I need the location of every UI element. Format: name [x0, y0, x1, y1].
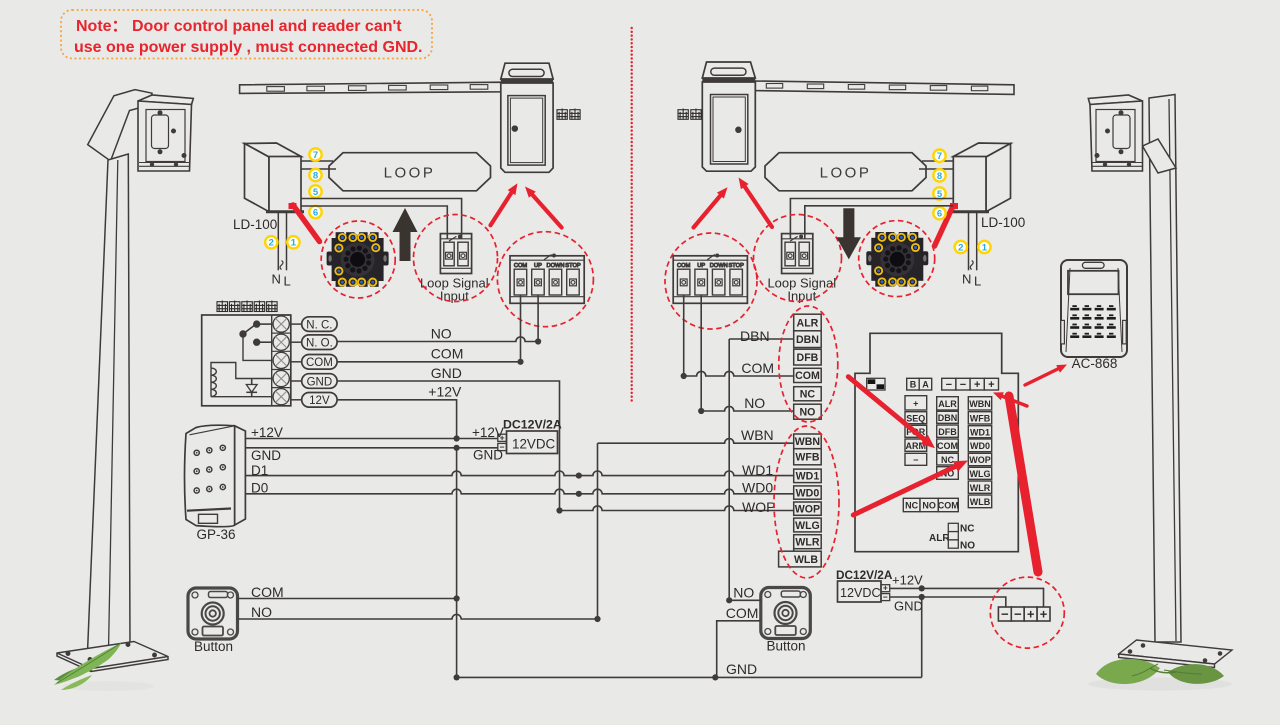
- right pole: [1143, 95, 1182, 643]
- left barrier arm: [240, 82, 501, 93]
- loop signal input terminal left: [440, 234, 471, 274]
- svg-text:−: −: [883, 592, 888, 602]
- svg-text:N. C.: N. C.: [306, 319, 332, 331]
- svg-text:WBN: WBN: [969, 399, 991, 409]
- svg-text:UP: UP: [697, 263, 705, 269]
- pin number 8 left: [309, 169, 321, 181]
- svg-text:STOP: STOP: [729, 263, 745, 269]
- terminal WFB strip2: [794, 449, 822, 465]
- junction dots D lines: [576, 473, 582, 479]
- svg-text:NC: NC: [800, 389, 816, 401]
- pin number 5 left: [309, 185, 321, 197]
- svg-text:DBN: DBN: [740, 328, 770, 344]
- svg-text:+: +: [913, 398, 918, 408]
- terminal WD1 strip2: [794, 469, 822, 483]
- svg-text:−: −: [913, 455, 918, 465]
- svg-text:+12V: +12V: [428, 384, 462, 400]
- right barrier cabinet: [702, 62, 755, 171]
- dashed circle around right loop signal input: [754, 215, 842, 302]
- svg-text:Button: Button: [766, 639, 805, 654]
- svg-text:DC12V/2A: DC12V/2A: [503, 418, 562, 432]
- svg-text:LOOP: LOOP: [384, 165, 436, 182]
- wire 8 right: [919, 168, 953, 170]
- wire DBN vertical right: [728, 339, 730, 600]
- LD-100 red corner indicator right: [950, 203, 958, 209]
- dashed circle around power terminal: [990, 577, 1064, 648]
- relay socket right: [866, 232, 928, 287]
- relay oval terminal N. O.: [291, 341, 302, 343]
- dashed circle around right relay socket: [859, 221, 935, 297]
- svg-text:WBN: WBN: [795, 436, 820, 448]
- wire 6 right to loop signal input: [805, 206, 954, 239]
- svg-text:L: L: [284, 274, 291, 289]
- svg-text:WD1: WD1: [742, 462, 773, 478]
- red arrow to left barrier 1: [491, 191, 513, 226]
- relay oval terminal N. C.: [291, 323, 302, 325]
- left leaves: [62, 681, 154, 691]
- svg-text:WLG: WLG: [970, 469, 991, 479]
- left pole base plate: [57, 642, 168, 672]
- junction dots PSU left: [454, 435, 460, 441]
- wire COM terminal down left: [520, 295, 522, 362]
- svg-text:N: N: [272, 272, 281, 287]
- keypad AC-868: [1061, 260, 1127, 357]
- svg-text:WD1: WD1: [796, 471, 820, 483]
- svg-text:WFB: WFB: [795, 452, 819, 464]
- svg-text:WD1: WD1: [970, 427, 990, 437]
- svg-text:WLR: WLR: [970, 483, 991, 493]
- svg-text:WLB: WLB: [970, 497, 991, 507]
- svg-text:LD-100: LD-100: [233, 217, 277, 232]
- terminal WLB offset: [779, 551, 822, 567]
- svg-text:WOP: WOP: [742, 499, 775, 515]
- wire +12V right PSU to power terminal: [890, 588, 1044, 607]
- svg-text:D0: D0: [251, 481, 268, 496]
- wire COM to terminal right: [684, 371, 794, 376]
- wire NO relay to UP left: [337, 337, 538, 342]
- right pole base plate: [1119, 640, 1232, 668]
- svg-text:AC-868: AC-868: [1072, 356, 1118, 371]
- wire +12V reader to PSU: [245, 438, 498, 440]
- terminal WD0 strip2: [794, 486, 822, 499]
- wire 5 right to loop signal input: [790, 199, 953, 240]
- relay coil: [211, 363, 272, 397]
- relay oval terminal COM: [291, 361, 302, 363]
- svg-text:NO: NO: [733, 585, 754, 601]
- svg-text:NO: NO: [744, 395, 765, 411]
- wire DBN to terminal: [729, 338, 794, 340]
- note box: [61, 10, 432, 59]
- svg-text:6: 6: [313, 207, 318, 218]
- svg-text:COM: COM: [677, 263, 691, 269]
- svg-text:Note： Door control panel and: Note： Door control panel and reader can'…: [76, 18, 402, 35]
- red pointer from LD-100 left: [293, 205, 320, 242]
- red arrow to WOP: [853, 465, 958, 515]
- svg-text:UP: UP: [534, 263, 542, 269]
- wire UP terminal down right: [700, 295, 702, 411]
- svg-text:ALR: ALR: [929, 533, 950, 544]
- svg-text:NO: NO: [800, 407, 816, 419]
- svg-text:N. O.: N. O.: [306, 338, 333, 350]
- red pointer from LD-100 right: [935, 206, 954, 246]
- mains wires N L right: [968, 212, 970, 271]
- pin number 2 left: [265, 236, 277, 248]
- relay oval terminal 12V: [291, 399, 302, 401]
- svg-text:DC12V/2A: DC12V/2A: [836, 568, 893, 582]
- terminal WLR strip2: [794, 535, 822, 549]
- motor terminal COM UP DOWN STOP left: [510, 254, 584, 303]
- svg-text:WLR: WLR: [795, 537, 819, 549]
- wire WBN: [597, 443, 599, 619]
- svg-text:8: 8: [313, 170, 318, 181]
- LD-100 red corner indicator left: [289, 203, 297, 209]
- svg-text:LD-100: LD-100: [981, 215, 1025, 230]
- red arrow to right barrier 2: [744, 185, 773, 227]
- power terminal - - + +: [998, 607, 1011, 621]
- svg-text:NO: NO: [960, 541, 975, 552]
- motor terminal COM UP DOWN STOP right: [673, 254, 747, 303]
- svg-text:12VDC: 12VDC: [512, 437, 555, 452]
- control board outline: [855, 333, 1018, 551]
- svg-text:GND: GND: [473, 448, 503, 463]
- svg-text:COM: COM: [795, 370, 820, 382]
- wire COM button left: [238, 598, 457, 600]
- svg-text:DBN: DBN: [796, 334, 819, 346]
- wire D0 to WD0: [245, 489, 793, 494]
- svg-text:NC: NC: [905, 500, 918, 510]
- red arrow to ++ header: [1000, 396, 1027, 407]
- svg-text:2: 2: [269, 238, 274, 249]
- left pole: [88, 90, 153, 652]
- bottom GND bus: [457, 676, 922, 678]
- svg-text:+: +: [1027, 606, 1035, 621]
- svg-text:COM: COM: [938, 500, 959, 510]
- board column WBN: [968, 397, 991, 410]
- svg-text:−: −: [1001, 606, 1009, 621]
- black up arrow left: [393, 208, 418, 261]
- pin number 5 right: [933, 187, 945, 199]
- dashed circle around right motor terminal: [665, 233, 757, 329]
- svg-text:1: 1: [291, 238, 297, 249]
- svg-text:WOP: WOP: [969, 455, 991, 465]
- red arrow to AC-868: [1025, 368, 1060, 385]
- mains wires N L left: [277, 212, 279, 271]
- push button right: [761, 588, 811, 639]
- svg-text:B: B: [910, 379, 917, 389]
- svg-text:COM: COM: [726, 605, 759, 621]
- terminal WOP strip2: [794, 502, 822, 515]
- svg-text:NO: NO: [431, 326, 452, 342]
- terminal ALR strip1: [794, 314, 822, 331]
- svg-text:COM: COM: [306, 357, 333, 369]
- left barrier label 道闸: [557, 109, 567, 120]
- left loop coil: [329, 153, 491, 191]
- pin number 6 right: [933, 207, 945, 219]
- svg-text:+12V: +12V: [251, 425, 283, 440]
- wire COM button right: [717, 621, 761, 678]
- right loop coil: [765, 153, 926, 191]
- right camera housing: [1088, 95, 1142, 171]
- svg-text:12VDC: 12VDC: [840, 586, 881, 600]
- relay oval terminal GND: [291, 380, 302, 382]
- wire NO button right: [729, 599, 761, 601]
- svg-text:L: L: [974, 274, 981, 289]
- card reader GP-36: [185, 425, 246, 526]
- wire +12V relay left: [337, 400, 457, 439]
- pin number 1 right: [978, 241, 990, 253]
- svg-text:+: +: [988, 379, 994, 391]
- svg-text:GND: GND: [307, 376, 333, 388]
- push button left: [188, 588, 238, 639]
- right leaves: [1088, 678, 1232, 691]
- svg-text:12V: 12V: [309, 395, 330, 407]
- svg-text:COM: COM: [431, 346, 464, 362]
- black down arrow right: [837, 208, 862, 259]
- svg-text:DOWN: DOWN: [710, 263, 728, 269]
- wire 7 left: [301, 160, 334, 162]
- wire 7 right: [922, 160, 953, 162]
- svg-text:WD0: WD0: [796, 487, 820, 499]
- dashed ellipse around strip1: [779, 306, 838, 422]
- relay contacts: [240, 321, 272, 360]
- left barrier cabinet: [501, 63, 553, 172]
- svg-text:WOP: WOP: [795, 503, 820, 515]
- svg-text:N: N: [962, 272, 971, 287]
- svg-text:7: 7: [937, 151, 942, 162]
- svg-text:WLG: WLG: [795, 520, 820, 532]
- wire GND right PSU to power terminal: [890, 597, 1006, 607]
- svg-text:WLB: WLB: [794, 554, 818, 566]
- board column SEQ: [905, 396, 927, 410]
- header B A: [907, 378, 920, 390]
- svg-text:LOOP: LOOP: [820, 165, 872, 182]
- wire 5 left to loop signal input: [301, 199, 462, 240]
- right barrier label 道闸: [678, 109, 688, 120]
- wire UP terminal down left: [537, 295, 539, 342]
- loop detector LD-100 right: [950, 143, 1011, 212]
- red arrow to left barrier 2: [531, 193, 562, 227]
- external relay label 外部继电器: [217, 301, 228, 312]
- svg-text:SEQ: SEQ: [906, 413, 925, 423]
- svg-text:Button: Button: [194, 639, 233, 654]
- header - - + +: [942, 378, 956, 390]
- svg-text:WD0: WD0: [742, 480, 773, 496]
- wire 6 left to loop signal input: [301, 206, 448, 239]
- board column ALR: [937, 397, 959, 410]
- board row NC NO COM: [903, 498, 920, 511]
- right barrier arm: [755, 81, 1014, 94]
- svg-text:A: A: [922, 379, 929, 389]
- terminal DFB strip1: [794, 349, 822, 365]
- svg-text:COM: COM: [741, 360, 774, 376]
- terminal WBN strip2: [794, 434, 822, 449]
- wire 8 left: [301, 168, 337, 170]
- svg-text:+12V: +12V: [892, 573, 923, 588]
- svg-text:ALR: ALR: [938, 399, 957, 409]
- red streak to power terminal: [1009, 396, 1038, 572]
- loop detector LD-100 left: [245, 143, 305, 212]
- loop signal input terminal right: [782, 234, 813, 274]
- svg-text:+: +: [1040, 606, 1048, 621]
- svg-text:D1: D1: [251, 463, 268, 478]
- svg-text:GND: GND: [431, 365, 462, 381]
- terminal COM strip1: [794, 368, 822, 382]
- svg-text:GND: GND: [726, 661, 757, 677]
- wire NO to terminal right: [701, 406, 794, 411]
- wire GND relay left: [337, 381, 559, 511]
- svg-text:+12V: +12V: [472, 425, 504, 440]
- relay socket left: [327, 232, 389, 287]
- terminal NC strip1: [794, 387, 822, 401]
- pin number 2 right: [955, 241, 967, 253]
- red arrow to COM: [848, 377, 926, 442]
- svg-text:DOWN: DOWN: [546, 263, 564, 269]
- svg-text:NO: NO: [922, 500, 936, 510]
- terminal WLG strip2: [794, 518, 822, 532]
- svg-text:DFB: DFB: [797, 352, 819, 364]
- svg-text:1: 1: [982, 242, 988, 253]
- divider dashed line: [631, 28, 633, 402]
- svg-text:DBN: DBN: [938, 413, 958, 423]
- dashed circle around left loop signal input: [414, 215, 498, 302]
- terminal NO strip1: [794, 404, 822, 419]
- wire NO button left: [238, 614, 598, 619]
- dashed circle around left motor terminal: [497, 232, 593, 327]
- svg-text:NC: NC: [960, 524, 974, 535]
- red arrow to right barrier 1: [694, 194, 722, 228]
- pin number 1 left: [287, 236, 299, 248]
- wire COM terminal down right: [683, 295, 685, 376]
- relay flyback diode: [246, 379, 257, 397]
- wire D1 to WD1: [245, 471, 793, 476]
- svg-text:WBN: WBN: [741, 427, 774, 443]
- wire GND reader to PSU: [245, 447, 498, 449]
- wire GND bus up to right PSU: [921, 597, 923, 677]
- svg-text:use one power supply , must co: use one power supply , must connected GN…: [74, 39, 423, 56]
- svg-text:WD0: WD0: [970, 441, 990, 451]
- pin number 7 left: [309, 148, 321, 160]
- wire WOP: [560, 506, 794, 511]
- left camera housing: [138, 95, 193, 171]
- svg-text:GND: GND: [251, 448, 281, 463]
- svg-text:6: 6: [937, 209, 942, 220]
- svg-text:GP-36: GP-36: [196, 527, 235, 542]
- pin number 8 right: [933, 169, 945, 181]
- svg-text:ALR: ALR: [797, 317, 819, 329]
- dashed ellipse around strip2: [774, 426, 839, 578]
- svg-text:7: 7: [313, 150, 318, 161]
- external relay box: [202, 315, 291, 406]
- svg-text:−: −: [946, 379, 952, 391]
- pin number 6 left: [309, 206, 321, 218]
- svg-text:WFB: WFB: [970, 413, 991, 423]
- svg-text:5: 5: [313, 187, 319, 198]
- svg-text:COM: COM: [514, 263, 528, 269]
- wire COM relay to COM left: [337, 361, 520, 363]
- svg-text:+: +: [974, 379, 980, 391]
- svg-text:STOP: STOP: [565, 263, 581, 269]
- pin number 7 right: [933, 150, 945, 162]
- svg-text:GND: GND: [894, 599, 923, 614]
- svg-text:−: −: [1014, 606, 1022, 621]
- terminal DBN strip1: [794, 331, 822, 348]
- svg-text:COM: COM: [251, 584, 284, 600]
- svg-text:2: 2: [958, 242, 963, 253]
- svg-text:−: −: [960, 379, 966, 391]
- svg-text:DFB: DFB: [938, 427, 957, 437]
- DIP switch: [867, 378, 885, 390]
- svg-text:NC: NC: [941, 455, 954, 465]
- svg-text:NO: NO: [251, 604, 272, 620]
- svg-text:COM: COM: [937, 441, 958, 451]
- svg-text:8: 8: [937, 171, 942, 182]
- dashed circle around left relay socket: [321, 221, 395, 298]
- wire GND PSU down to button COM and bottom GND: [456, 448, 458, 678]
- junction dots left terminals: [535, 338, 541, 344]
